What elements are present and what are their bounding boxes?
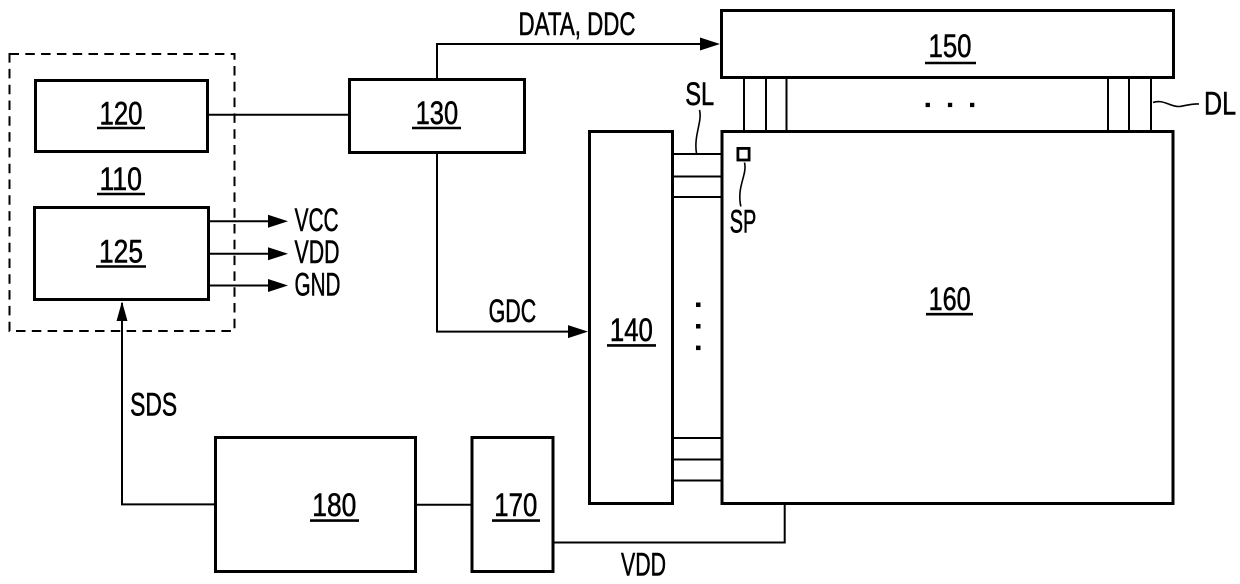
svg-text:180: 180	[312, 487, 356, 523]
arrowhead VDD	[268, 247, 288, 260]
label SL with leader	[685, 76, 714, 154]
sub-pixel SP square	[738, 148, 749, 160]
block 180	[216, 438, 416, 572]
svg-text:130: 130	[416, 95, 459, 131]
svg-text:125: 125	[99, 234, 143, 270]
svg-text:DL: DL	[1204, 86, 1236, 122]
dashed block 110 (host system boundary)	[10, 54, 235, 331]
svg-text:110: 110	[99, 161, 142, 197]
data lines between 150 and 160 (right group)	[1107, 78, 1109, 131]
vertical ellipsis dots between scan line groups	[696, 303, 701, 308]
svg-text:140: 140	[610, 312, 653, 348]
svg-text:170: 170	[494, 487, 537, 523]
scan lines between 140 and 160 (top group)	[673, 153, 722, 155]
label SP with leader	[730, 163, 757, 240]
scan lines between 140 and 160 (bottom group)	[673, 437, 722, 439]
block 160 (display panel)	[722, 132, 1173, 504]
wire VDD from 170 to 160 bottom	[555, 505, 785, 543]
svg-text:VCC: VCC	[295, 202, 339, 238]
wire VCC out of 125	[209, 220, 270, 222]
svg-text:GND: GND	[295, 267, 341, 303]
block 140 (gate driver)	[590, 132, 673, 504]
svg-text:SL: SL	[685, 76, 714, 112]
arrowhead into 140	[568, 325, 588, 338]
wire VDD out of 125	[209, 253, 270, 255]
wire GND out of 125	[209, 285, 270, 287]
block 150 (data driver)	[722, 11, 1174, 78]
svg-text:120: 120	[100, 96, 143, 132]
svg-text:160: 160	[929, 281, 971, 317]
block 120	[36, 81, 208, 152]
svg-text:SP: SP	[730, 204, 757, 240]
svg-text:VDD: VDD	[295, 234, 340, 270]
label DL with leader	[1153, 86, 1236, 122]
label 110	[97, 161, 145, 197]
ellipsis dots between data line groups	[926, 103, 930, 107]
wire 180 to 170	[416, 504, 472, 506]
wire 120 to 130	[209, 114, 350, 116]
wire 130 top to DATA bus	[437, 44, 717, 79]
arrowhead into 150	[700, 38, 720, 51]
arrowhead SDS into 125	[117, 302, 128, 322]
svg-text:SDS: SDS	[130, 387, 177, 423]
svg-text:GDC: GDC	[489, 293, 537, 329]
svg-text:150: 150	[929, 28, 972, 64]
svg-text:DATA, DDC: DATA, DDC	[519, 6, 636, 42]
block 125	[35, 208, 209, 300]
arrowhead VCC	[268, 215, 288, 228]
svg-text:VDD: VDD	[621, 547, 666, 583]
wire 130 bottom to GDC bus	[437, 153, 585, 332]
data lines between 150 and 160 (left group)	[743, 78, 745, 131]
block 130	[350, 80, 525, 153]
block 170	[472, 438, 553, 572]
arrowhead GND	[268, 279, 288, 292]
wire SDS from 180 up into 125	[122, 303, 214, 504]
